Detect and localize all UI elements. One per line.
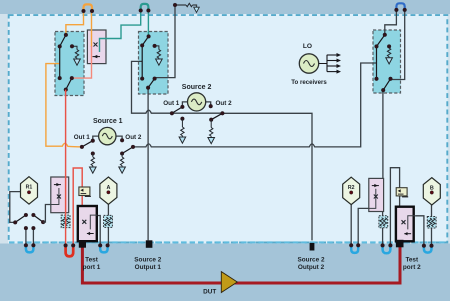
svg-text:port 2: port 2: [403, 264, 421, 271]
front jumper loop port2 src (blue): [383, 246, 391, 254]
label test port 1: [83, 256, 101, 271]
wire orange: SW1 left contact down to source1 out1 switch: [46, 64, 82, 147]
svg-text:DUT: DUT: [203, 288, 216, 295]
wire red: jumper return up and into coupler thru: [73, 168, 82, 245]
svg-text:To receivers: To receivers: [291, 79, 327, 86]
switch SW2 internals: [140, 35, 162, 90]
test port 2 connector: [396, 240, 404, 248]
left margin strip: [0, 14, 8, 244]
wire: SW2 pole down to source2 output 1 connector: [147, 88, 149, 241]
switch SW1 internals: [58, 33, 80, 92]
step attenuator under receiver A: [104, 215, 113, 227]
source 1 out2 switch arm to bus: [120, 138, 135, 153]
receiver hexagon B: [423, 178, 440, 205]
dashed instrument border: [9, 15, 448, 242]
wire: blue panel jumper left leg to SW3 top: [385, 10, 397, 35]
svg-text:A: A: [106, 185, 110, 191]
jumper arc J-src2 (teal, top panel): [141, 4, 149, 11]
jumper arc J-src1 (orange, top panel): [84, 4, 93, 11]
wire: R1 loop to R1 mixer input: [43, 205, 51, 223]
pulse modulator box (pink, top-left): [87, 30, 106, 64]
source 1 out1 switch arm: [80, 139, 95, 149]
top panel connector dots: [82, 3, 407, 13]
switch box SW1: [55, 32, 84, 96]
wire: test port coupler coupled arm to receiver A loop: [97, 216, 100, 246]
wire: receiver B feed through attenuator: [431, 205, 433, 246]
wire red: SW1 pole down to test port 1 jumper: [65, 90, 67, 246]
wire: source2 bus down to rear output 2: [222, 113, 312, 240]
receiver hexagon R1: [21, 177, 38, 204]
wire: blue panel jumper right leg to SW3 lower contact: [391, 10, 405, 80]
wire: receiver A feed through attenuator: [107, 204, 109, 246]
source 2 output 1 connector: [146, 240, 153, 248]
source 2 out1 termination: [179, 117, 186, 143]
svg-text:Source 1: Source 1: [93, 118, 123, 125]
wire: panel termination to SW2 lower-right contact: [155, 5, 175, 78]
LO source and distribution: [291, 43, 341, 86]
source 1 out2 termination: [119, 152, 126, 174]
svg-text:Source 2: Source 2: [298, 256, 325, 263]
wire: test port 2 coupled arm to receiver B loop: [415, 216, 424, 246]
source 2 out2 termination: [208, 118, 215, 144]
svg-text:R2: R2: [348, 185, 355, 191]
wire teal: panel jumper to SW2 top contact: [147, 11, 149, 37]
svg-text:B: B: [430, 185, 434, 191]
svg-text:Output 2: Output 2: [298, 264, 325, 271]
svg-text:Out 2: Out 2: [125, 134, 142, 141]
svg-text:R1: R1: [26, 185, 33, 191]
source 1 labels: [74, 118, 142, 141]
terminated connector on top panel: [175, 3, 199, 12]
wire orange: source1 out1 to SW1 top via panel jumper: [66, 11, 84, 35]
source 2 labels: [163, 84, 232, 107]
R1 mixer box: [51, 177, 69, 213]
wire: SW2 left contact to source2 bus: [132, 61, 223, 113]
thick DUT path test port1 to test port2: [82, 247, 400, 284]
front jumper loop R1 (blue): [26, 246, 34, 253]
receiver hexagon A: [100, 177, 117, 204]
svg-text:port 1: port 1: [83, 264, 101, 271]
wire orange: panel jumper through pulse modulator: [91, 11, 93, 47]
svg-text:Source 2: Source 2: [182, 84, 212, 91]
source 2 out1 switch arm to bus: [170, 105, 184, 115]
test port 1 coupler block: [78, 206, 98, 241]
right margin strip: [448, 14, 450, 244]
svg-text:LO: LO: [303, 43, 312, 50]
source 1 out1 termination: [90, 152, 97, 174]
svg-text:Out 1: Out 1: [74, 134, 91, 141]
source 2 out2 switch arm to termination: [209, 104, 225, 119]
svg-text:Test: Test: [405, 256, 419, 263]
wire: SW3 pole down to port2 pulse modulator: [382, 90, 384, 179]
pulse modulator internals (mixer X and detector): [93, 43, 101, 59]
front panel connector dots: [24, 243, 433, 247]
svg-text:Source 2: Source 2: [134, 256, 161, 263]
wire: source1 out2 bus to SW3 left contact: [133, 63, 377, 147]
label test port 2: [403, 256, 421, 271]
front jumper loop receiver A (blue): [100, 246, 107, 253]
svg-text:Test: Test: [85, 256, 99, 263]
svg-text:Output 1: Output 1: [135, 264, 162, 271]
receiver hexagon R2: [343, 177, 360, 204]
R1 loop switch contacts: [13, 213, 45, 245]
front jumper loop receiver B (blue): [424, 246, 432, 253]
wire teal: panel jumper to pulse modulator LO port: [100, 11, 141, 53]
switch SW3 internals: [375, 33, 393, 92]
DUT amplifier: [203, 272, 237, 296]
source 2 generator: [182, 93, 210, 111]
svg-text:Out 1: Out 1: [163, 100, 180, 107]
test port 2 coupler block: [396, 207, 415, 242]
test port 1 connector: [79, 240, 86, 247]
svg-text:Out 2: Out 2: [216, 100, 233, 107]
step attenuator under R1 mixer: [61, 215, 70, 228]
switch box SW3: [373, 30, 401, 93]
wire: R1 input feed: [10, 192, 21, 223]
front jumper loop R2 (blue): [351, 246, 358, 253]
source 2 output 2 connector: [310, 243, 315, 251]
front jumper loop source out to cplr thru (red): [66, 246, 74, 257]
R2 mixer box (port 2 pulse modulator): [369, 178, 384, 211]
directional coupler (beige) port 2: [396, 188, 408, 197]
label source 2 output 1: [134, 256, 161, 271]
label source 2 output 2: [298, 256, 325, 271]
wire: R2 loop legs: [351, 204, 369, 245]
jumper arc J-lo (blue, top panel): [396, 3, 404, 10]
source 1 generator: [93, 127, 122, 144]
bottom border light dashes: [9, 241, 447, 243]
wire: port2 modulator out through attenuator to jumper: [382, 212, 384, 246]
directional coupler (beige) port 1: [79, 187, 91, 196]
step attenuator under receiver B: [427, 217, 436, 229]
wire salmon: pulse modulator out to SW1 lower contact: [72, 46, 92, 78]
instrument inner area: [8, 14, 448, 244]
switch box SW2: [139, 32, 169, 95]
step attenuator port 2 source path: [379, 216, 388, 228]
wire: port2 jumper return into coupler thru: [390, 168, 399, 246]
